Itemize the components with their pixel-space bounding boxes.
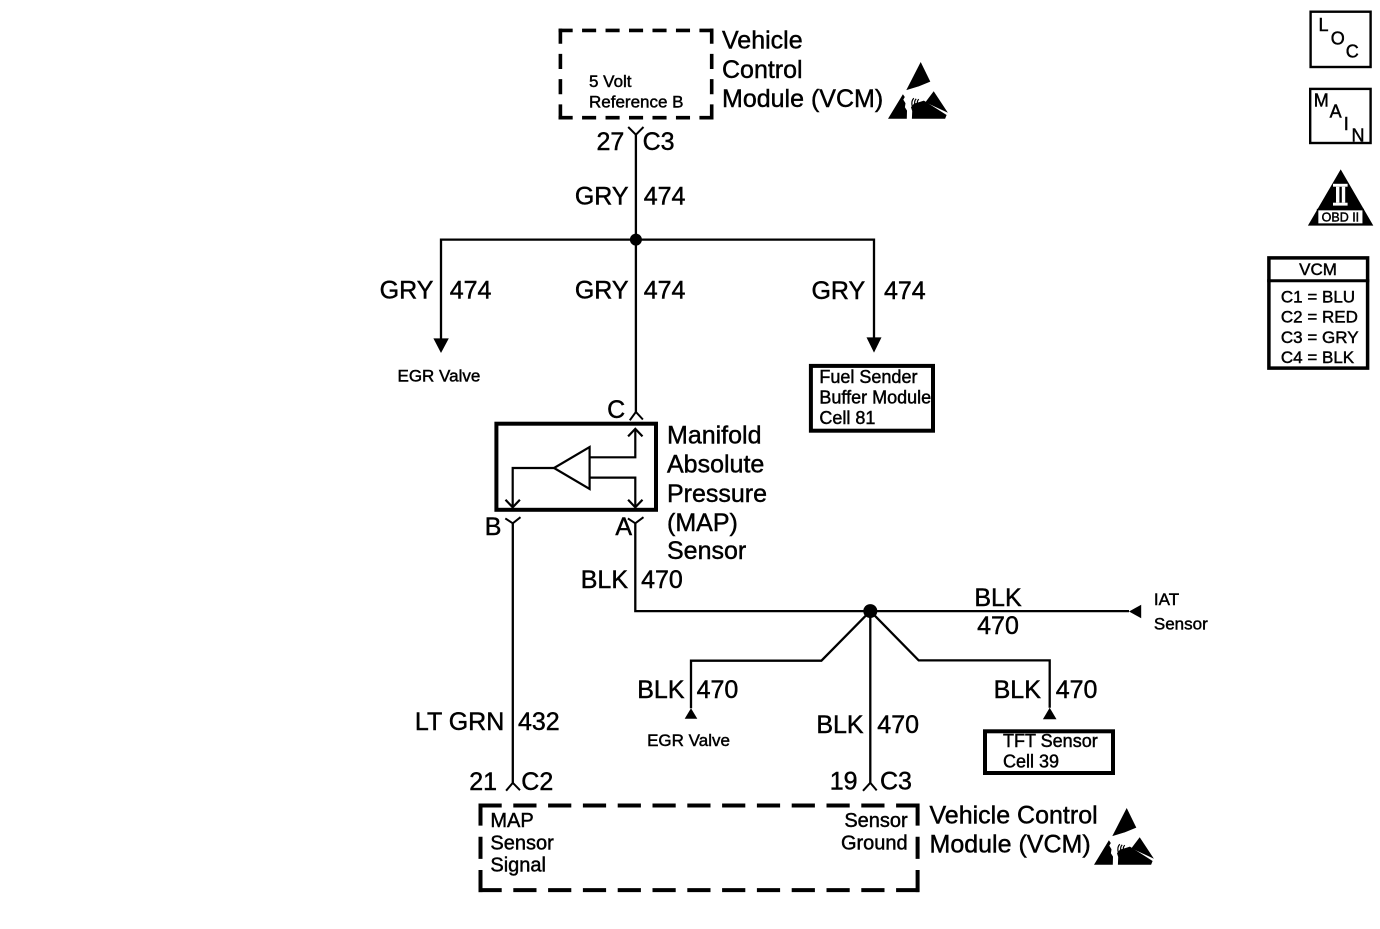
svg-text:I: I — [1344, 114, 1349, 134]
svg-text:Reference B: Reference B — [589, 93, 684, 112]
svg-text:EGR Valve: EGR Valve — [647, 731, 730, 750]
svg-text:C: C — [1346, 42, 1359, 62]
svg-text:Manifold: Manifold — [667, 422, 762, 450]
svg-text:IAT: IAT — [1154, 590, 1179, 609]
svg-text:EGR Valve: EGR Valve — [398, 367, 481, 386]
svg-text:C4 = BLK: C4 = BLK — [1281, 348, 1355, 367]
svg-text:BLK: BLK — [974, 584, 1022, 612]
svg-text:Signal: Signal — [490, 854, 546, 876]
svg-text:Ground: Ground — [841, 832, 908, 854]
svg-text:GRY: GRY — [811, 277, 865, 305]
svg-text:432: 432 — [518, 708, 560, 736]
svg-text:Sensor: Sensor — [844, 810, 908, 832]
svg-text:LT GRN: LT GRN — [415, 708, 504, 736]
svg-text:Fuel Sender: Fuel Sender — [819, 367, 917, 387]
svg-text:C: C — [607, 396, 625, 424]
svg-text:470: 470 — [641, 566, 683, 594]
svg-text:Absolute: Absolute — [667, 451, 764, 479]
svg-text:MAP: MAP — [490, 810, 533, 832]
svg-text:474: 474 — [450, 277, 492, 305]
svg-text:GRY: GRY — [575, 183, 629, 211]
svg-text:C3: C3 — [880, 768, 912, 796]
svg-text:C3: C3 — [643, 128, 675, 156]
svg-text:470: 470 — [697, 676, 739, 704]
svg-text:L: L — [1319, 15, 1329, 35]
svg-text:A: A — [1330, 101, 1342, 121]
svg-text:27: 27 — [596, 128, 624, 156]
svg-text:474: 474 — [644, 183, 686, 211]
svg-text:21: 21 — [469, 768, 497, 796]
svg-text:474: 474 — [884, 277, 926, 305]
svg-text:C1 = BLU: C1 = BLU — [1281, 288, 1355, 307]
svg-text:OBD II: OBD II — [1322, 211, 1360, 225]
svg-text:Sensor: Sensor — [1154, 615, 1208, 634]
svg-text:470: 470 — [877, 711, 919, 739]
svg-text:474: 474 — [644, 277, 686, 305]
svg-text:(MAP): (MAP) — [667, 509, 738, 537]
svg-text:BLK: BLK — [581, 566, 629, 594]
svg-text:A: A — [615, 513, 632, 541]
svg-text:Pressure: Pressure — [667, 480, 767, 508]
svg-text:TFT Sensor: TFT Sensor — [1003, 731, 1098, 751]
svg-text:470: 470 — [1056, 676, 1098, 704]
svg-text:Cell 81: Cell 81 — [819, 408, 875, 428]
svg-text:Buffer Module: Buffer Module — [819, 388, 931, 408]
svg-text:Module (VCM): Module (VCM) — [722, 85, 883, 113]
svg-text:Module (VCM): Module (VCM) — [930, 831, 1091, 859]
svg-text:470: 470 — [977, 612, 1019, 640]
svg-text:19: 19 — [830, 768, 858, 796]
svg-text:C3 = GRY: C3 = GRY — [1281, 328, 1359, 347]
svg-text:BLK: BLK — [816, 711, 864, 739]
svg-text:BLK: BLK — [637, 676, 685, 704]
svg-text:N: N — [1352, 126, 1365, 146]
svg-text:C2: C2 — [521, 768, 553, 796]
svg-text:Cell 39: Cell 39 — [1003, 751, 1059, 771]
svg-text:Vehicle Control: Vehicle Control — [930, 802, 1098, 830]
svg-text:Vehicle: Vehicle — [722, 27, 803, 55]
svg-text:C2 = RED: C2 = RED — [1281, 308, 1358, 327]
svg-text:B: B — [485, 513, 502, 541]
svg-text:Sensor: Sensor — [490, 832, 554, 854]
svg-text:O: O — [1331, 29, 1345, 49]
svg-text:Sensor: Sensor — [667, 537, 746, 565]
svg-text:VCM: VCM — [1299, 260, 1337, 279]
svg-text:GRY: GRY — [380, 277, 434, 305]
svg-text:BLK: BLK — [994, 676, 1042, 704]
svg-text:M: M — [1314, 90, 1329, 110]
svg-text:5 Volt: 5 Volt — [589, 72, 632, 91]
svg-text:GRY: GRY — [575, 277, 629, 305]
svg-text:Control: Control — [722, 56, 803, 84]
